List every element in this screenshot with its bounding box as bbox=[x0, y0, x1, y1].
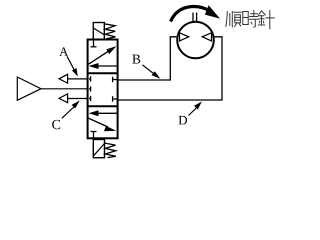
pilot source triangle (big) bbox=[17, 77, 41, 100]
valve body (3-position) bbox=[88, 40, 118, 139]
bottom solenoid S2 bbox=[93, 140, 104, 158]
hydraulic motor M1 bbox=[177, 22, 214, 59]
motor shaft lines bbox=[192, 13, 194, 22]
top solenoid S1 bbox=[93, 23, 104, 40]
label C bbox=[52, 120, 60, 129]
wire: motor right port to valve port D side bbox=[117, 37, 222, 100]
bottom spring bbox=[105, 143, 116, 158]
glyph 順 bbox=[226, 12, 242, 28]
label A bbox=[59, 47, 68, 55]
glyph 時 bbox=[243, 11, 258, 28]
label C pointer arrow bbox=[62, 100, 80, 118]
label 順時針 (clockwise) drawn as strokes bbox=[226, 11, 275, 30]
wire: triangle C to valve bbox=[68, 98, 88, 100]
motor inner right arrowhead bbox=[202, 33, 211, 41]
top box: left flow arrow bbox=[89, 63, 118, 69]
top box: diagonal flow arrow bbox=[89, 46, 117, 64]
label B bbox=[132, 55, 140, 64]
vent triangle A (small, points left) bbox=[59, 74, 68, 83]
label D bbox=[179, 116, 187, 125]
top spring bbox=[104, 24, 115, 39]
wire: motor left port to valve port B side bbox=[117, 37, 178, 80]
middle box: left blocked ports bbox=[89, 76, 91, 101]
wire: big triangle to valve bbox=[41, 88, 88, 90]
bottom box: blocked port stub bbox=[91, 132, 97, 138]
middle box: right blocked ports bbox=[113, 77, 117, 102]
label A pointer arrow bbox=[67, 56, 78, 76]
wire: triangle A to valve bbox=[68, 78, 88, 80]
label D pointer arrow bbox=[189, 102, 202, 116]
clockwise rotation arrow bbox=[171, 5, 221, 21]
label B pointer arrow bbox=[142, 65, 160, 79]
top box: blocked port stub bbox=[91, 41, 97, 47]
vent triangle C (small, points left) bbox=[59, 94, 68, 103]
glyph 針 bbox=[258, 11, 274, 30]
motor inner left arrowhead bbox=[180, 33, 189, 41]
bottom box: left flow arrow bbox=[89, 110, 118, 116]
bottom box: diagonal flow arrow bbox=[88, 118, 116, 131]
